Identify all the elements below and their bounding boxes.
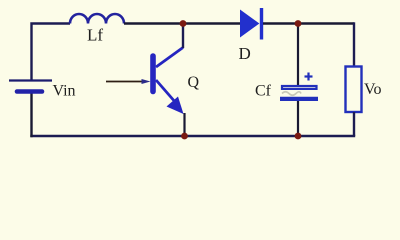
svg-text:Lf: Lf [87, 25, 103, 44]
svg-text:D: D [239, 44, 251, 63]
capacitor Cf [280, 73, 318, 99]
wire: left rail lower (bottom rail to battery negative) [30, 94, 32, 138]
diode D [241, 8, 262, 40]
svg-text:Vin: Vin [53, 83, 76, 100]
wire: collector to top rail [182, 24, 184, 49]
wire: base drive line into transistor [106, 79, 151, 84]
wire: inductor to diode anode (top rail middle) [124, 22, 241, 24]
junction: diode cathode node on top rail [295, 20, 302, 27]
wire: capacitor lower lead to bottom rail [297, 101, 299, 136]
svg-text:Vo: Vo [364, 81, 382, 98]
svg-text:Cf: Cf [255, 83, 272, 100]
junction: collector node on top rail [180, 20, 187, 27]
wire: right rail lower (load to bottom rail) [353, 112, 355, 136]
wire: right rail upper (top rail corner down to load) [353, 22, 355, 66]
wire: capacitor upper lead from top rail [297, 24, 299, 86]
junction: emitter node on bottom rail [181, 133, 188, 140]
wire: bottom rail [30, 135, 355, 137]
wire: battery positive up left rail and top-left segment to inductor [32, 24, 71, 80]
resistor load Vo [346, 67, 362, 113]
wire: emitter to bottom rail [183, 113, 185, 136]
inductor Lf [70, 14, 124, 23]
transistor Q [153, 48, 184, 115]
wire: diode cathode to top-right corner [263, 22, 354, 24]
junction: capacitor node on bottom rail [295, 133, 302, 140]
svg-text:Q: Q [188, 74, 200, 91]
battery Vin [9, 81, 52, 92]
